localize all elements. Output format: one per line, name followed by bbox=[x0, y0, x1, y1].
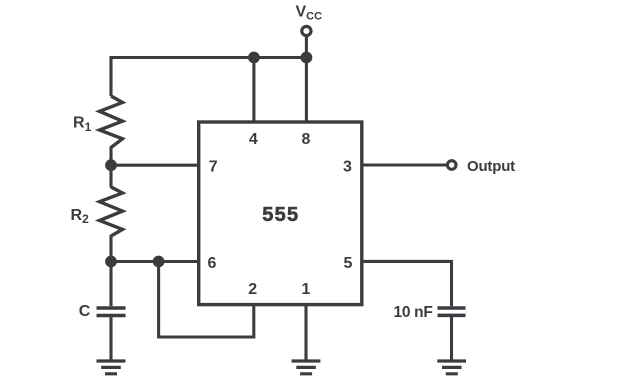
op IC U1: 555 timer body bbox=[199, 122, 362, 305]
wire: C bottom to ground bbox=[109, 317, 112, 361]
node: junction dot pin4/top rail bbox=[248, 52, 260, 64]
wire: pin 6 to left rail bbox=[111, 260, 198, 263]
capacitor C plates bbox=[97, 308, 126, 316]
svg-text:VCC: VCC bbox=[296, 3, 323, 22]
svg-text:3: 3 bbox=[343, 159, 352, 176]
power terminal Vcc (open circle) bbox=[302, 26, 311, 35]
wire: rail from R2 to capacitor C bbox=[109, 235, 112, 306]
svg-text:10 nF: 10 nF bbox=[394, 304, 433, 321]
wire: pin 3 to output terminal bbox=[362, 163, 446, 166]
svg-text:C: C bbox=[79, 303, 91, 320]
wire: pin 7 to left rail bbox=[111, 164, 198, 167]
capacitor 10nF plates bbox=[438, 308, 466, 315]
node: junction dot threshold/trigger tie bbox=[153, 256, 165, 268]
wire: pin 1 down to ground bbox=[304, 305, 307, 361]
svg-text:4: 4 bbox=[249, 131, 258, 148]
resistor R2 bbox=[100, 187, 123, 236]
svg-text:Output: Output bbox=[467, 158, 515, 175]
svg-text:R1: R1 bbox=[73, 115, 92, 134]
svg-text:2: 2 bbox=[248, 281, 257, 298]
svg-text:7: 7 bbox=[209, 159, 218, 176]
wire: pin 5 over to bypass capacitor bbox=[362, 261, 452, 306]
wire: pin 4 column to top rail bbox=[252, 58, 255, 123]
wire: 10nF to ground bbox=[450, 317, 453, 361]
wire: trigger loop from pin6 node down to pin 2 bbox=[159, 262, 254, 338]
resistor R1 bbox=[100, 96, 123, 148]
svg-text:8: 8 bbox=[302, 131, 311, 148]
ground (below pin 1) bbox=[292, 361, 321, 374]
ground (below C) bbox=[97, 361, 126, 374]
svg-text:6: 6 bbox=[208, 255, 217, 272]
node: junction dot R2/C/pin6 bbox=[105, 256, 117, 268]
wire: Vcc top rail from left rail to pin8 column bbox=[111, 58, 306, 97]
wire: rail between R1 and R2 bbox=[109, 147, 112, 188]
node Output terminal (open circle) bbox=[447, 161, 456, 170]
svg-text:5: 5 bbox=[343, 255, 352, 272]
svg-text:1: 1 bbox=[302, 281, 311, 298]
svg-text:R2: R2 bbox=[71, 207, 90, 226]
ground (below 10nF) bbox=[437, 361, 466, 374]
wire: Vcc terminal down to pin 8 bbox=[305, 36, 308, 122]
node: junction dot R1/R2/pin7 bbox=[105, 159, 117, 171]
svg-text:555: 555 bbox=[262, 204, 299, 226]
node: junction dot pin8/Vcc bbox=[301, 52, 313, 64]
